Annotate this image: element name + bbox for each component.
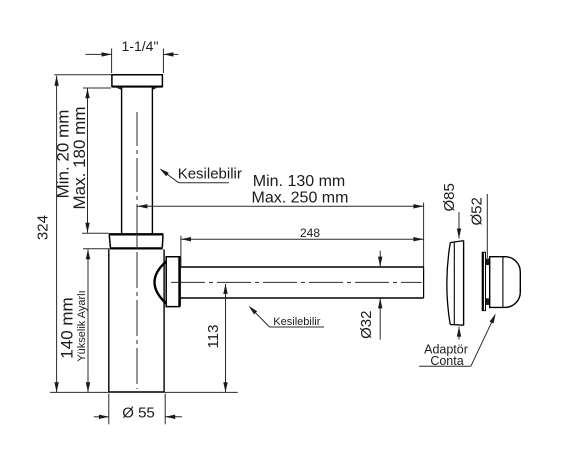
- svg-text:Yükselik Ayarlı: Yükselik Ayarlı: [76, 290, 88, 361]
- svg-text:Ø85: Ø85: [441, 183, 458, 211]
- svg-text:113: 113: [205, 325, 222, 349]
- svg-text:1-1/4": 1-1/4": [122, 38, 159, 54]
- svg-text:140 mm: 140 mm: [58, 297, 77, 358]
- svg-text:Ø32: Ø32: [358, 311, 375, 339]
- svg-text:248: 248: [300, 226, 320, 240]
- svg-text:Ø52: Ø52: [469, 197, 486, 225]
- svg-text:Kesilebilir: Kesilebilir: [273, 316, 320, 328]
- svg-text:Max. 250 mm: Max. 250 mm: [252, 189, 349, 206]
- svg-text:Min. 130 mm: Min. 130 mm: [253, 173, 345, 190]
- svg-text:Max. 180 mm: Max. 180 mm: [70, 107, 89, 210]
- svg-text:Ø 55: Ø 55: [122, 405, 155, 422]
- svg-text:324: 324: [34, 215, 51, 240]
- svg-text:Kesilebilir: Kesilebilir: [178, 166, 242, 183]
